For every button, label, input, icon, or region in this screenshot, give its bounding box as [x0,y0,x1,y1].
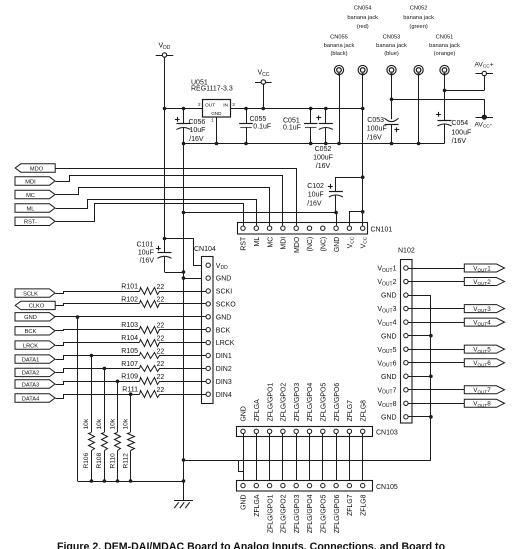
wire VOUT2 [408,281,464,283]
node RST- flag [15,217,55,225]
banana jack CN055 (black) [334,65,343,74]
wire R106 column [90,354,94,358]
svg-text:10k: 10k [83,418,90,429]
capacitor C055 0.1uF [244,107,248,111]
svg-text:MDI: MDI [25,179,36,185]
wire GND branch to CN101 [182,211,186,215]
svg-text:DATA2: DATA2 [22,371,40,377]
node MC flag [15,190,55,198]
capacitor C102 10uF/16V [336,178,363,192]
wire CN052 to GND bus [418,75,420,144]
wire GND to CN105/N102 [182,458,186,462]
svg-text:MC: MC [267,237,274,248]
svg-text:/16V: /16V [307,200,322,207]
connector CN101 [238,223,368,235]
svg-text:banana jack: banana jack [403,15,434,21]
svg-text:ZFLG/GPO1: ZFLG/GPO1 [267,494,274,533]
svg-text:(orange): (orange) [434,51,456,57]
svg-text:IN: IN [223,102,228,108]
resistor R103 22 [140,327,160,334]
svg-text:banana jack: banana jack [324,43,355,49]
resistor R105 22 [140,353,160,359]
wire VOUT5 [408,349,464,351]
wire VOUT3 [408,308,464,310]
svg-text:DIN4: DIN4 [216,392,232,399]
wire VOUT7 [408,389,464,391]
svg-text:CLKO: CLKO [29,304,45,310]
resistor R106 10k [89,433,95,451]
node GND column junction [76,315,80,319]
svg-text:R105: R105 [121,348,138,355]
svg-text:VOUT7: VOUT7 [377,387,396,395]
svg-text:/16V: /16V [452,138,467,145]
wire GND row [55,316,139,318]
resistor R101 22 [140,288,160,295]
svg-text:CN051: CN051 [436,35,454,41]
svg-text:C051: C051 [283,118,300,125]
svg-text:C102: C102 [307,183,324,190]
wire VDD branch to CN104 [165,239,207,266]
wire CN104 GND pin2 [182,276,186,280]
svg-text:R101: R101 [121,283,138,290]
wire MC [56,188,270,226]
svg-text:SCKI: SCKI [216,289,232,296]
svg-text:(green): (green) [409,24,427,30]
svg-text:10k: 10k [109,418,116,429]
svg-text:CN101: CN101 [371,226,393,233]
svg-text:ZFLG7: ZFLG7 [347,494,354,516]
svg-text:22: 22 [157,348,165,355]
resistor R107 22 [140,366,160,372]
svg-text:2: 2 [198,102,201,107]
node LRCK flag [15,341,55,349]
wire VCC pin9 jumper [350,212,363,226]
node VOUT7 flag [464,386,504,394]
svg-text:GND: GND [381,333,397,340]
node MDO flag [15,164,55,172]
wire N102 GND pin [408,376,431,378]
resistor R110 10k [115,433,121,451]
svg-text:AVCC-: AVCC- [475,122,492,130]
svg-text:ZFLG7: ZFLG7 [347,400,354,422]
svg-text:VOUT1: VOUT1 [377,266,396,274]
node SCLK flag [15,289,55,297]
resistor R112 10k [128,433,135,451]
node VOUT1 flag [464,264,504,272]
svg-text:22: 22 [157,335,165,342]
svg-text:banana jack: banana jack [376,43,407,49]
node VOUT5 flag [464,345,504,353]
svg-text:(black): (black) [330,51,347,57]
ground symbol [174,500,193,502]
svg-text:DATA1: DATA1 [22,357,40,363]
wire VOUT4 [408,322,464,324]
svg-text:VDD: VDD [159,43,171,51]
node GND flag [15,313,55,321]
banana jack CN051 (orange) [440,65,449,74]
svg-text:CN055: CN055 [330,35,348,41]
svg-text:ZFLG/GPO6: ZFLG/GPO6 [334,494,341,533]
wire R108 column [103,367,107,371]
svg-text:R104: R104 [121,335,138,342]
wire ML [56,200,257,226]
svg-text:C054: C054 [451,120,468,127]
wire N102 GND pin [408,416,431,418]
wire MDI [56,176,283,226]
svg-text:R106: R106 [83,452,90,468]
svg-text:GND: GND [381,293,397,300]
capacitor C053 100uF/16V [391,114,393,120]
svg-text:N102: N102 [398,248,415,255]
capacitor C054 100uF/16V [444,120,446,122]
svg-text:ZFLG/GPO3: ZFLG/GPO3 [294,494,301,533]
svg-text:VOUT5: VOUT5 [377,347,396,355]
wire BCK row [56,330,140,331]
wire CN055 to GND bus [339,75,341,144]
resistor R102 22 [140,301,160,308]
svg-text:10k: 10k [122,418,129,429]
svg-text:ZFLG8: ZFLG8 [360,400,367,422]
svg-text:C055: C055 [250,116,267,123]
wire U051 OUT to VDD [165,108,203,110]
svg-text:10uF: 10uF [308,192,324,199]
wire DATA3 row [56,382,140,385]
svg-text:R102: R102 [121,296,138,303]
svg-text:R110: R110 [109,453,116,469]
svg-text:ZFLG8: ZFLG8 [360,494,367,516]
svg-text:100uF: 100uF [367,126,387,133]
svg-text:R109: R109 [121,374,138,381]
wire AVCC- from C053 [392,99,485,101]
svg-text:VCC: VCC [347,236,355,248]
svg-text:DATA4: DATA4 [22,396,40,402]
svg-text:VOUT2: VOUT2 [377,279,396,287]
svg-text:GND: GND [241,494,248,509]
wire R110 column [116,380,120,384]
wire DATA2 row [56,369,140,373]
svg-text:3: 3 [232,102,235,107]
svg-text:VOUT6: VOUT6 [377,360,396,368]
svg-text:VOUT8: VOUT8 [377,401,396,409]
svg-text:10k: 10k [96,418,103,429]
wire N102 GND pin [408,335,431,337]
svg-text:SCKO: SCKO [216,302,236,309]
connector N102 [401,260,413,424]
svg-text:SCLK: SCLK [23,291,38,297]
banana jack CN052 (green) [414,65,423,74]
svg-text:(NC): (NC) [321,237,328,252]
svg-text:CN103: CN103 [376,430,398,437]
svg-text:ZFLGA: ZFLGA [254,494,261,517]
wire LRCK row [56,343,140,346]
wire VDD vertical [164,57,166,238]
svg-text:CN053: CN053 [383,35,401,41]
svg-text:DATA3: DATA3 [22,382,40,388]
svg-text:CN054: CN054 [354,6,372,12]
svg-text:CN104: CN104 [194,246,216,253]
connector CN104 [202,257,214,404]
svg-text:VCC: VCC [258,70,270,78]
svg-text:(red): (red) [357,24,369,30]
banana jack CN053 (blue) [387,65,396,74]
resistor R108 10k [102,433,108,451]
resistor R111 22 [140,391,160,398]
svg-text:R108: R108 [96,452,103,468]
wire CN054/VCC trunk [362,75,364,226]
svg-text:10uF: 10uF [138,250,154,257]
wire VOUT6 [408,362,464,364]
capacitor C101 10uF/16V [164,239,166,253]
svg-text:GND: GND [216,314,232,321]
svg-text:DIN2: DIN2 [216,366,232,373]
wire N102 GND pin [408,295,431,297]
node VOUT3 flag [464,305,504,313]
svg-text:MDO: MDO [30,166,44,172]
wire CN053 drop [391,75,393,114]
svg-text:R103: R103 [121,322,138,329]
connector CN103 [237,427,373,437]
node DATA2 flag [15,368,55,376]
svg-text:/16V: /16V [367,134,382,141]
wire GND bus top [184,143,445,145]
svg-text:0.1uF: 0.1uF [283,125,301,132]
banana jack CN054 (red) [358,65,367,74]
svg-text:R112: R112 [122,453,129,469]
svg-text:LRCK: LRCK [216,340,235,347]
op-amp U051 regulator REG1117-3.3 [203,100,231,118]
svg-text:100uF: 100uF [313,155,333,162]
svg-text:22: 22 [157,297,165,304]
svg-text:MC: MC [26,193,35,199]
node BCK flag [15,327,55,335]
svg-text:22: 22 [157,387,165,394]
connector CN105 [237,481,373,492]
wire RST- [56,204,244,226]
svg-text:ZFLG/GPO4: ZFLG/GPO4 [307,383,314,422]
wire DATA4 row [56,395,140,399]
svg-text:/16V: /16V [140,258,155,265]
node VOUT4 flag [464,318,504,326]
svg-text:C053: C053 [367,117,384,124]
svg-text:ZFLG/GPO1: ZFLG/GPO1 [267,383,274,422]
svg-text:1: 1 [211,117,214,122]
node MDI flag [15,177,55,185]
svg-text:(blue): (blue) [384,51,399,57]
node AVCC+ terminal [476,73,494,75]
capacitor C051 0.1uF [309,107,313,111]
wire DATA1 row [56,356,140,360]
node DATA1 flag [15,355,55,363]
wire CN051 to AVCC+ and C054 [444,75,446,120]
svg-text:OUT: OUT [205,102,215,108]
node VOUT2 flag [464,278,504,286]
svg-text:GND: GND [334,237,341,252]
wire VCC rail [231,108,363,110]
svg-text:22: 22 [157,323,165,330]
svg-text:GND: GND [216,276,232,283]
svg-text:LRCK: LRCK [23,343,38,349]
svg-text:ZFLG/GPO3: ZFLG/GPO3 [294,383,301,422]
svg-text:22: 22 [157,374,165,381]
wire U051 GND down [216,117,218,144]
svg-text:Figure 2. DEM-DAI/MDAC Board t: Figure 2. DEM-DAI/MDAC Board to Analog I… [57,541,446,549]
node VOUT6 flag [464,359,504,367]
wire VCC terminal drop [263,84,265,108]
svg-text:CN052: CN052 [410,6,428,12]
wire VOUT1 [408,268,464,270]
node ML flag [15,204,55,212]
node VCC terminal [255,82,272,84]
svg-text:CN105: CN105 [376,484,398,491]
wire CLKO row [56,304,140,306]
svg-text:C101: C101 [137,241,154,248]
svg-text:GND: GND [241,406,248,421]
svg-text:ZFLG/GPO2: ZFLG/GPO2 [281,383,288,422]
svg-text:10uF: 10uF [190,127,206,134]
svg-text:0.1uF: 0.1uF [253,124,271,131]
svg-text:(NC): (NC) [307,237,314,252]
wire GND column [77,317,79,481]
svg-text:/16V: /16V [189,136,204,143]
svg-text:C056: C056 [189,119,206,126]
wire GND trunk [183,144,185,501]
svg-text:GND: GND [381,374,397,381]
svg-text:RST: RST [241,236,248,251]
resistor R109 22 [140,378,160,385]
wire SCLK row [56,292,140,294]
svg-text:GND: GND [24,315,37,321]
svg-text:DIN1: DIN1 [216,353,232,360]
svg-text:100uF: 100uF [451,130,471,137]
svg-text:ML: ML [254,237,261,247]
svg-text:ZFLGA: ZFLGA [254,399,261,422]
svg-text:MDI: MDI [281,237,288,250]
svg-text:VCC: VCC [360,236,368,248]
svg-text:banana jack: banana jack [429,43,460,49]
svg-text:VOUT3: VOUT3 [377,306,396,314]
wires CN103 to CN105 [243,434,245,484]
node DATA4 flag [15,394,55,402]
svg-text:GND: GND [211,111,222,116]
capacitor C056 10uF/16V [182,107,186,111]
svg-text:22: 22 [157,284,165,291]
svg-text:C052: C052 [315,146,332,153]
wire resistor bottom bus [78,481,184,483]
wire VOUT8 [408,403,464,405]
svg-text:ML: ML [27,206,35,212]
node DATA3 flag [15,380,55,388]
svg-text:banana jack: banana jack [347,15,378,21]
node CLKO flag [15,301,55,309]
svg-text:ZFLG/GPO6: ZFLG/GPO6 [334,383,341,422]
svg-text:BCK: BCK [25,329,37,335]
svg-text:ZFLG/GPO5: ZFLG/GPO5 [321,383,328,422]
node VOUT8 flag [464,399,504,407]
svg-text:VOUT4: VOUT4 [377,320,396,328]
svg-text:BCK: BCK [216,327,231,334]
wire MDO [56,169,297,226]
resistor R104 22 [140,340,160,347]
svg-text:R107: R107 [121,361,138,368]
svg-text:ZFLG/GPO5: ZFLG/GPO5 [321,494,328,533]
svg-text:ZFLG/GPO4: ZFLG/GPO4 [307,494,314,533]
svg-text:GND: GND [381,414,397,421]
svg-text:22: 22 [157,361,165,368]
node VDD terminal [156,55,174,57]
svg-text:RST-: RST- [24,220,37,226]
wire R112 column [129,392,133,396]
svg-text:MDO: MDO [294,236,301,253]
svg-text:/16V: /16V [316,163,331,170]
svg-text:AVCC+: AVCC+ [475,62,494,70]
svg-text:VDD: VDD [216,263,228,271]
capacitor C052 100uF/16V [324,107,328,111]
svg-text:REG1117-3.3: REG1117-3.3 [191,86,233,93]
node AVCC- terminal [476,117,494,119]
svg-text:ZFLG/GPO2: ZFLG/GPO2 [281,494,288,533]
svg-text:DIN3: DIN3 [216,379,232,386]
